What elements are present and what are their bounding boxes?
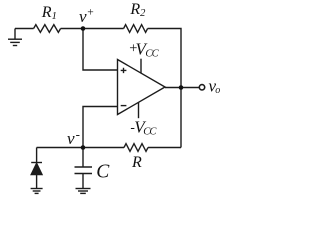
- svg-text:CC: CC: [143, 127, 157, 138]
- wire R1 to node v+: [61, 28, 83, 30]
- diode D1 triangle: [31, 163, 42, 174]
- svg-text:v: v: [79, 7, 87, 26]
- svg-text:v: v: [67, 129, 75, 148]
- svg-text:R: R: [131, 154, 142, 171]
- diode D1 branch wire down: [36, 148, 38, 163]
- output terminal circle: [199, 85, 204, 90]
- node v+ junction dot: [81, 26, 86, 31]
- node v- junction dot: [81, 145, 86, 150]
- ground (top-left): [14, 29, 16, 40]
- wire v+ node down and into + input: [83, 29, 118, 71]
- svg-text:R1: R1: [41, 4, 57, 22]
- diode D1 cathode bar: [31, 162, 42, 164]
- wire - input left and down to v- node: [83, 107, 118, 148]
- svg-text:-: -: [76, 127, 80, 142]
- svg-text:o: o: [215, 85, 220, 96]
- svg-text:R2: R2: [129, 1, 146, 19]
- ground (diode): [31, 188, 43, 190]
- resistor R1: [34, 25, 61, 33]
- output node junction dot: [179, 85, 184, 90]
- op-amp + input sign: [121, 68, 127, 73]
- wire top-left from ground to R1: [15, 28, 34, 30]
- svg-text:+: +: [87, 6, 94, 18]
- wire v- node to diode branch: [37, 147, 83, 149]
- wire R2 to top-right corner and down to bottom wire: [148, 29, 181, 148]
- svg-text:C: C: [96, 161, 110, 182]
- op-amp U1 triangle: [118, 60, 166, 115]
- capacitor wire to ground: [82, 174, 84, 189]
- -VCC supply stub: [138, 102, 140, 118]
- svg-text:CC: CC: [145, 49, 159, 60]
- op-amp - input sign: [121, 105, 127, 107]
- wire v- node to R: [83, 147, 124, 149]
- capacitor C plates: [75, 166, 93, 168]
- diode wire to ground: [36, 175, 38, 189]
- ground (capacitor): [76, 188, 91, 190]
- wire op-amp output to terminal: [165, 87, 199, 89]
- wire R to bottom-right corner: [148, 147, 181, 149]
- resistor R: [124, 144, 148, 152]
- resistor R2: [124, 25, 148, 33]
- +VCC supply stub: [140, 59, 142, 73]
- capacitor C branch wire down: [82, 148, 84, 168]
- wire node v+ to R2: [83, 28, 124, 30]
